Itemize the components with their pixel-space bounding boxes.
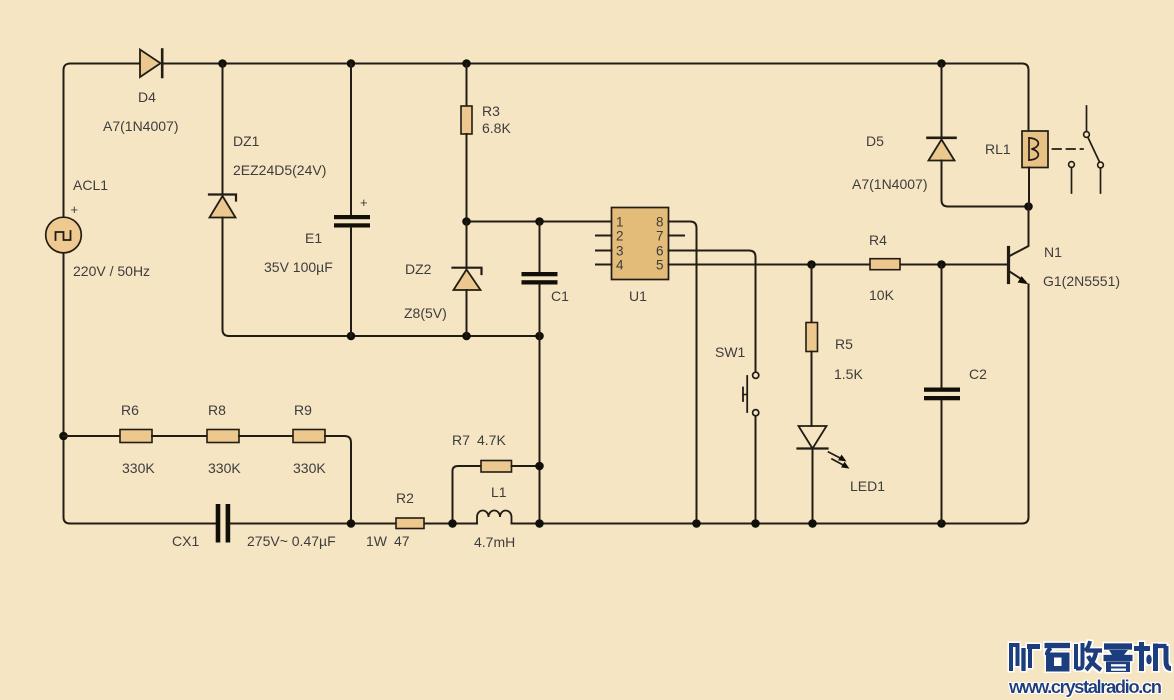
wire R7 to C1 branch — [512, 465, 540, 467]
resistor R4 — [870, 259, 900, 270]
svg-text:1W: 1W — [366, 533, 388, 549]
svg-text:R8: R8 — [208, 402, 226, 418]
wire bottom rail CX1 to L1 — [231, 523, 478, 525]
node bottom rail R2/L1/R7 — [448, 519, 457, 528]
wire pin 6 to SW1 — [669, 251, 756, 373]
svg-text:4.7K: 4.7K — [477, 432, 506, 448]
wire R6 row — [64, 435, 121, 437]
svg-text:8: 8 — [656, 215, 664, 230]
node C1 top — [535, 217, 544, 226]
wire top rail left segment to D4 anode — [70, 63, 140, 65]
switch SW1 — [743, 372, 759, 523]
wire ACL1 bottom to bottom rail corner — [64, 253, 71, 524]
wire pin 5 row to transistor base — [669, 264, 1009, 266]
svg-text:+: + — [71, 202, 79, 217]
svg-text:4.7mH: 4.7mH — [474, 534, 515, 550]
svg-text:C1: C1 — [551, 288, 569, 304]
wire R8-R9 — [239, 435, 293, 437]
wire top rail from D4 to relay corner — [163, 64, 1029, 132]
svg-text:220V / 50Hz: 220V / 50Hz — [73, 263, 150, 279]
node bottom rail pin8 — [692, 519, 701, 528]
relay NC contact — [1069, 162, 1075, 168]
char shi mouth — [1046, 653, 1070, 672]
svg-text:330K: 330K — [122, 460, 155, 476]
svg-text:5: 5 — [656, 258, 664, 273]
svg-text:47: 47 — [394, 533, 410, 549]
node top rail / E1 — [347, 59, 356, 68]
char ji dot — [1146, 655, 1152, 665]
svg-text:D5: D5 — [866, 133, 884, 149]
node bottom rail C2 — [937, 519, 946, 528]
svg-text:E1: E1 — [305, 230, 322, 246]
resistor R3 — [461, 64, 472, 222]
svg-text:6.8K: 6.8K — [482, 120, 511, 136]
node bottom rail SW1 — [751, 519, 760, 528]
svg-text:4: 4 — [616, 258, 624, 273]
diode D5 — [928, 64, 1029, 207]
svg-text:10K: 10K — [869, 287, 895, 303]
svg-text:C2: C2 — [969, 366, 987, 382]
resistor R5 — [806, 265, 818, 427]
svg-text:L1: L1 — [491, 484, 507, 500]
svg-text:www.crystalradio.cn: www.crystalradio.cn — [1008, 676, 1162, 697]
wire rail 336 — [229, 335, 540, 337]
svg-text:LED1: LED1 — [850, 478, 885, 494]
node bottom rail C1 — [535, 519, 544, 528]
node pin5 / R5 — [807, 260, 816, 269]
node rail336 / C1 — [535, 332, 544, 341]
capacitor C2 — [924, 265, 960, 524]
capacitor E1 — [334, 64, 370, 337]
svg-text:3: 3 — [616, 244, 624, 259]
relay RL1 — [1022, 131, 1048, 207]
char yin — [1104, 643, 1132, 650]
svg-text:1.5K: 1.5K — [834, 366, 863, 382]
resistor R6 — [120, 430, 152, 443]
svg-text:R2: R2 — [396, 490, 414, 506]
svg-text:1: 1 — [616, 215, 624, 230]
svg-text:N1: N1 — [1044, 244, 1062, 260]
transistor N1 — [1009, 207, 1029, 285]
svg-text:DZ2: DZ2 — [405, 261, 432, 277]
node bottom rail LED1 — [808, 519, 817, 528]
char kuang — [1009, 643, 1013, 671]
IC U1 — [612, 208, 669, 280]
svg-text:R3: R3 — [482, 103, 500, 119]
inductor L1 — [477, 511, 512, 524]
node rail336 / DZ2 — [462, 332, 471, 341]
relay contact pole — [1086, 106, 1088, 132]
wire R6-R8 — [152, 435, 207, 437]
node rail336 / E1 — [347, 332, 356, 341]
led LED1 — [798, 426, 850, 524]
pin 2 stub — [596, 235, 612, 237]
relay contact dashed link — [1053, 148, 1084, 150]
resistor R2 — [396, 518, 424, 529]
char shi — [1045, 643, 1071, 649]
svg-text:U1: U1 — [629, 288, 647, 304]
svg-text:7: 7 — [656, 229, 664, 244]
svg-text:RL1: RL1 — [985, 141, 1011, 157]
resistor R9 — [293, 430, 325, 443]
svg-text:2: 2 — [616, 229, 624, 244]
svg-text:275V~ 0.47µF: 275V~ 0.47µF — [247, 533, 336, 549]
svg-text:D4: D4 — [138, 89, 156, 105]
resistor R8 — [207, 430, 239, 443]
svg-text:330K: 330K — [293, 460, 326, 476]
node R7 / C1 branch — [535, 462, 544, 471]
wire bottom rail L1 to transistor emitter — [512, 285, 1029, 524]
svg-text:330K: 330K — [208, 460, 241, 476]
node top rail / D5 — [937, 59, 946, 68]
node left / R6 row — [59, 432, 68, 441]
svg-text:A7(1N4007): A7(1N4007) — [852, 176, 928, 192]
pin 3 stub — [596, 250, 612, 252]
svg-text:R7: R7 — [452, 432, 470, 448]
char yin mouth — [1106, 662, 1130, 673]
node R3/DZ2 — [462, 217, 471, 226]
svg-text:2EZ24D5(24V): 2EZ24D5(24V) — [233, 162, 326, 178]
wire left vertical from top rail to ACL1 — [64, 64, 71, 218]
svg-text:G1(2N5551): G1(2N5551) — [1043, 273, 1120, 289]
wire bottom rail left of CX1 — [70, 523, 216, 525]
svg-text:DZ1: DZ1 — [233, 133, 260, 149]
resistor R7 — [481, 461, 512, 473]
svg-text:A7(1N4007): A7(1N4007) — [103, 118, 179, 134]
svg-text:6: 6 — [656, 244, 664, 259]
node pin5 / C2 — [937, 260, 946, 269]
svg-text:Z8(5V): Z8(5V) — [404, 305, 447, 321]
svg-text:CX1: CX1 — [172, 533, 199, 549]
svg-text:R9: R9 — [294, 402, 312, 418]
char shou — [1074, 644, 1078, 669]
node D5 / relay / collector — [1024, 202, 1033, 211]
wire pin 8 to bottom rail — [669, 222, 697, 524]
svg-text:+: + — [360, 195, 368, 210]
svg-text:35V 100µF: 35V 100µF — [264, 259, 333, 275]
svg-text:R6: R6 — [121, 402, 139, 418]
wire R9 to bottom rail — [325, 436, 351, 524]
node top rail / R3 — [462, 59, 471, 68]
pin 7 stub — [669, 235, 685, 237]
pin 4 stub — [596, 264, 612, 266]
svg-text:R5: R5 — [835, 336, 853, 352]
zener diode DZ1 — [209, 64, 236, 337]
zener diode DZ2 — [453, 222, 482, 337]
wire R7 branch — [453, 466, 482, 524]
wire pin1 row — [467, 221, 612, 223]
capacitor CX1 — [216, 504, 231, 543]
capacitor C1 — [522, 222, 558, 524]
relay moving arm — [1088, 138, 1100, 163]
ac source ACL1 — [46, 202, 82, 253]
char yin wedge — [1109, 650, 1128, 655]
char ji — [1134, 646, 1150, 651]
svg-text:R4: R4 — [869, 232, 887, 248]
svg-text:ACL1: ACL1 — [73, 177, 108, 193]
node top rail / DZ1 — [218, 59, 227, 68]
node bottom rail R9 — [347, 519, 356, 528]
diode D4 — [140, 50, 162, 78]
svg-text:SW1: SW1 — [715, 344, 746, 360]
